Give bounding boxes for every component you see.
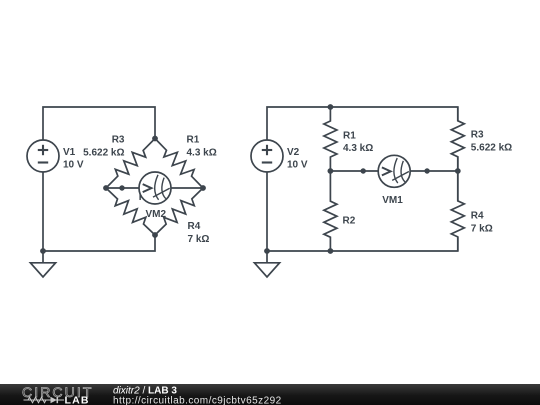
resistor R2 bbox=[106, 188, 155, 235]
wire R3-R4 junction bbox=[457, 157, 459, 201]
voltage source V2 bbox=[251, 140, 283, 172]
svg-text:5.622 kΩ: 5.622 kΩ bbox=[471, 143, 512, 154]
wire V2 top rail bbox=[267, 107, 458, 140]
svg-text:R3: R3 bbox=[112, 135, 125, 146]
wire V2 bottom to ground bbox=[266, 172, 268, 251]
node bridge top bbox=[152, 136, 158, 142]
resistor R2 bbox=[324, 171, 337, 251]
voltmeter VM2 bbox=[139, 172, 171, 204]
svg-text:VM1: VM1 bbox=[382, 195, 403, 206]
svg-text:7 kΩ: 7 kΩ bbox=[471, 224, 493, 235]
node bridge bottom bbox=[152, 232, 158, 238]
logo wire bbox=[24, 399, 65, 401]
logo diode bbox=[51, 397, 57, 403]
svg-text:R4: R4 bbox=[188, 221, 201, 232]
node top tee bbox=[328, 104, 334, 110]
svg-text:LAB: LAB bbox=[65, 395, 90, 405]
svg-text:4.3 kΩ: 4.3 kΩ bbox=[343, 143, 373, 154]
wire V1 bottom to ground node bbox=[42, 172, 44, 251]
resistor R3 bbox=[451, 107, 464, 171]
wire bottom rail left circuit bbox=[43, 235, 155, 251]
ground bbox=[254, 251, 279, 277]
svg-text:R2: R2 bbox=[343, 216, 356, 227]
svg-text:V1: V1 bbox=[63, 147, 76, 158]
logo resistor squiggle bbox=[28, 397, 46, 402]
resistor R4 bbox=[155, 188, 203, 235]
node bridge left bbox=[103, 185, 109, 191]
svg-text:R4: R4 bbox=[471, 211, 484, 222]
wire V1 top to bridge top bbox=[43, 107, 155, 140]
ground bbox=[30, 251, 55, 277]
voltmeter VM1 bbox=[378, 155, 410, 187]
footer bar bbox=[0, 384, 540, 405]
node mid right tee bbox=[455, 168, 461, 174]
node VM1 left pin bbox=[361, 168, 366, 173]
resistor R4 bbox=[451, 171, 464, 251]
svg-text:7 kΩ: 7 kΩ bbox=[188, 234, 210, 245]
wire VM2 horizontal bbox=[106, 187, 203, 189]
svg-text:4.3 kΩ: 4.3 kΩ bbox=[187, 148, 217, 159]
node bottom tee bbox=[328, 248, 334, 254]
resistor R1 bbox=[324, 107, 337, 171]
node VM1 right pin bbox=[424, 168, 429, 173]
node bridge right bbox=[200, 185, 206, 191]
node VM2 left pin bbox=[119, 185, 124, 190]
svg-text:http://circuitlab.com/c9jcbtv6: http://circuitlab.com/c9jcbtv65z292 bbox=[113, 396, 282, 405]
node ground tee left bbox=[40, 248, 46, 254]
svg-text:10 V: 10 V bbox=[63, 160, 84, 171]
node ground tee right bbox=[264, 248, 270, 254]
resistor R1 bbox=[155, 139, 203, 189]
node mid left tee bbox=[328, 168, 334, 174]
svg-text:5.622 kΩ: 5.622 kΩ bbox=[83, 148, 124, 159]
svg-text:R1: R1 bbox=[187, 135, 200, 146]
svg-text:VM2: VM2 bbox=[146, 209, 167, 220]
wire VM1 horizontal bbox=[330, 170, 457, 172]
resistor R3 bbox=[106, 139, 155, 189]
svg-text:10 V: 10 V bbox=[287, 160, 308, 171]
svg-text:V2: V2 bbox=[287, 147, 300, 158]
wire bottom rail right circuit bbox=[267, 237, 458, 251]
voltage source V1 bbox=[27, 140, 59, 172]
svg-text:R1: R1 bbox=[343, 131, 356, 142]
svg-text:R3: R3 bbox=[471, 130, 484, 141]
